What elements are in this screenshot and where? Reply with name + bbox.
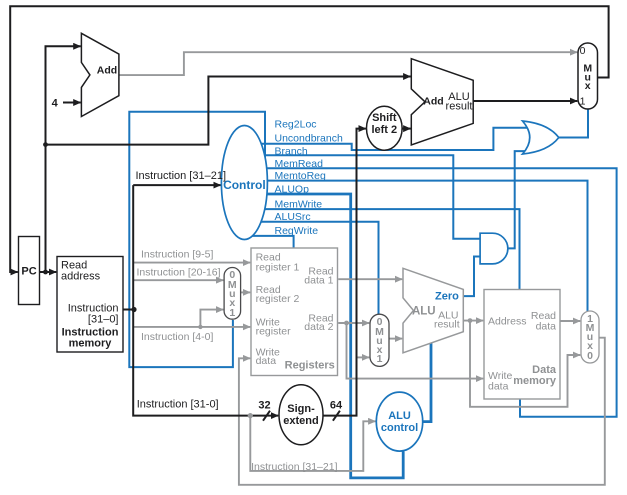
- svg-text:Instruction [9-5]: Instruction [9-5]: [141, 249, 213, 261]
- svg-text:address: address: [61, 271, 101, 283]
- svg-text:Registers: Registers: [285, 360, 335, 372]
- svg-text:data 1: data 1: [304, 274, 333, 286]
- svg-text:64: 64: [330, 400, 343, 412]
- svg-text:left 2: left 2: [371, 124, 397, 136]
- svg-text:MemWrite: MemWrite: [275, 199, 323, 211]
- svg-text:extend: extend: [283, 415, 318, 427]
- svg-text:Uncondbranch: Uncondbranch: [275, 133, 343, 145]
- svg-text:ALU: ALU: [412, 306, 436, 318]
- svg-text:MemtoReg: MemtoReg: [275, 170, 327, 182]
- svg-text:register: register: [256, 325, 292, 337]
- svg-text:ALUSrc: ALUSrc: [275, 211, 311, 223]
- svg-text:1: 1: [377, 353, 383, 365]
- svg-text:Instruction [31–21]: Instruction [31–21]: [136, 170, 227, 182]
- svg-text:data: data: [536, 321, 557, 333]
- svg-text:Instruction [31-0]: Instruction [31-0]: [137, 399, 219, 411]
- svg-text:Instruction [4-0]: Instruction [4-0]: [141, 331, 213, 343]
- svg-text:0: 0: [580, 45, 586, 57]
- svg-text:Address: Address: [488, 316, 527, 328]
- svg-text:register 2: register 2: [256, 293, 300, 305]
- svg-text:ALUOp: ALUOp: [275, 183, 310, 195]
- svg-text:1: 1: [229, 307, 235, 319]
- svg-text:PC: PC: [21, 266, 36, 278]
- svg-text:result: result: [446, 101, 473, 113]
- svg-text:x: x: [585, 80, 591, 92]
- svg-text:data: data: [488, 381, 509, 393]
- svg-text:4: 4: [52, 98, 59, 110]
- svg-text:Instruction [20-16]: Instruction [20-16]: [137, 267, 221, 279]
- svg-text:1: 1: [580, 96, 586, 108]
- svg-text:data: data: [256, 355, 277, 367]
- svg-text:memory: memory: [513, 375, 557, 387]
- svg-text:Control: Control: [223, 178, 266, 192]
- svg-text:Instruction [31–21]: Instruction [31–21]: [251, 461, 337, 473]
- svg-text:Sign-: Sign-: [287, 403, 315, 415]
- svg-text:[31–0]: [31–0]: [88, 314, 119, 326]
- svg-text:RegWrite: RegWrite: [275, 225, 319, 237]
- svg-text:Add: Add: [423, 95, 443, 107]
- svg-text:Reg2Loc: Reg2Loc: [275, 119, 317, 131]
- svg-text:data 2: data 2: [304, 321, 333, 333]
- svg-text:32: 32: [258, 400, 270, 412]
- svg-text:Shift: Shift: [372, 112, 397, 124]
- svg-text:Branch: Branch: [275, 146, 308, 158]
- svg-text:control: control: [381, 422, 418, 434]
- svg-text:memory: memory: [69, 338, 113, 350]
- svg-text:0: 0: [587, 350, 593, 362]
- svg-text:register 1: register 1: [256, 262, 300, 274]
- svg-text:MemRead: MemRead: [275, 158, 324, 170]
- svg-text:Add: Add: [97, 65, 117, 77]
- svg-text:Zero: Zero: [435, 290, 459, 302]
- svg-text:ALU: ALU: [388, 410, 411, 422]
- svg-text:result: result: [434, 319, 460, 331]
